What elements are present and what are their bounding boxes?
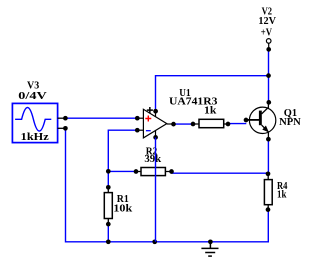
svg-text:1k: 1k <box>277 188 287 200</box>
svg-text:+V: +V <box>261 26 272 38</box>
svg-text:1k: 1k <box>204 104 217 116</box>
svg-text:1kHz: 1kHz <box>21 131 49 143</box>
svg-text:NPN: NPN <box>279 116 301 128</box>
svg-text:10k: 10k <box>113 203 133 215</box>
svg-text:39k: 39k <box>144 153 162 165</box>
svg-text:0/4V: 0/4V <box>18 90 46 102</box>
